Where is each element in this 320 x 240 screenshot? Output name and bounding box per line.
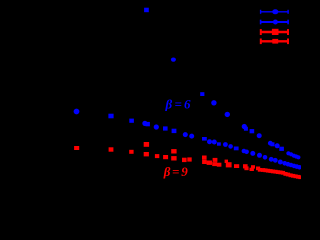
- svg-text:=: =: [175, 96, 182, 111]
- svg-text:β: β: [165, 96, 173, 111]
- svg-text:6: 6: [184, 96, 191, 111]
- svg-text:9: 9: [181, 164, 188, 179]
- red main series: [74, 146, 301, 179]
- label beta = 9 (red): [163, 164, 189, 179]
- legend entry 3: red errorbar with square marker: [260, 29, 289, 35]
- legend entry 1: blue errorbar with circle marker: [260, 9, 289, 14]
- svg-text:β: β: [163, 164, 171, 179]
- legend entry 4: red errorbar with flat square marker: [260, 39, 289, 45]
- blue steep series (upper trail): [144, 8, 300, 160]
- legend entry 2: blue errorbar with small circle marker: [260, 20, 289, 25]
- label beta = 6 (blue): [165, 96, 192, 111]
- svg-text:=: =: [172, 164, 179, 179]
- red upper sparse series: [144, 142, 228, 163]
- blue main series (lower trail): [74, 109, 302, 170]
